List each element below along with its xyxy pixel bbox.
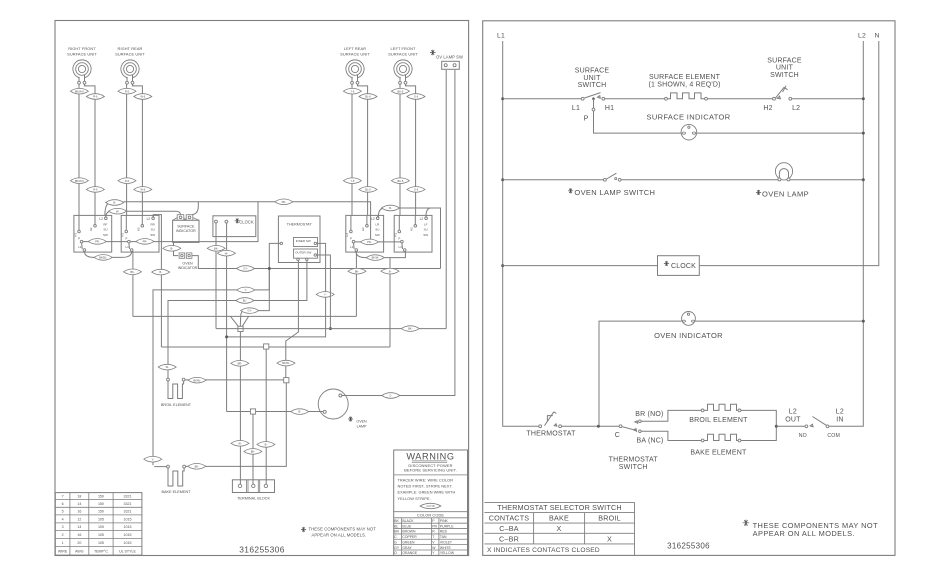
broil bus from box2-L2 to box4-L1: [161, 346, 390, 348]
svg-text:THERMOSTAT SELECTOR SWITCH: THERMOSTAT SELECTOR SWITCH: [497, 503, 621, 512]
svg-text:PR-: PR-: [143, 240, 148, 244]
svg-text:SW: SW: [375, 233, 380, 237]
svg-text:THERMOSTAT: THERMOSTAT: [609, 456, 659, 463]
svg-text:SURFACE: SURFACE: [575, 68, 610, 75]
svg-text:BL-6: BL-6: [365, 188, 371, 192]
svg-text:105: 105: [98, 525, 104, 529]
surface unit switch box LR SU SW: [345, 215, 383, 252]
note: these components may not appear (left panel): [301, 527, 376, 538]
svg-text:BK-: BK-: [214, 246, 218, 250]
surface unit switch box LF SU SW: [394, 215, 432, 252]
svg-text:N: N: [875, 33, 880, 40]
svg-text:BR-: BR-: [238, 361, 243, 365]
svg-text:16: 16: [77, 510, 81, 514]
svg-text:R-6: R-6: [93, 95, 98, 99]
svg-text:UNIT: UNIT: [776, 65, 794, 72]
splice bus: clock wire to oven lamp switch with BK- label: [216, 326, 446, 332]
broil element (schematic): [689, 404, 748, 424]
svg-text:150: 150: [98, 510, 104, 514]
svg-text:C–BR: C–BR: [499, 534, 519, 543]
svg-text:GY: GY: [394, 546, 400, 550]
svg-text:P: P: [125, 236, 127, 240]
svg-text:H1: H1: [394, 233, 398, 237]
junction branch join: [775, 425, 778, 428]
wire pair from surface unit 2 down to its switch: [118, 84, 152, 215]
svg-text:14: 14: [77, 525, 81, 529]
splice node B: [284, 378, 289, 383]
svg-text:B-: B-: [265, 443, 268, 447]
svg-text:CONTACTS: CONTACTS: [489, 514, 530, 523]
right panel border frame: [483, 21, 895, 556]
svg-text:P: P: [78, 236, 80, 240]
L1 vertical wire: [503, 41, 541, 426]
svg-text:PINK: PINK: [440, 519, 449, 523]
svg-text:P: P: [398, 236, 400, 240]
wire splice A down to terminal block with BR- and W- labels: [231, 332, 249, 485]
oven lamp: [756, 163, 809, 199]
svg-text:SWITCH: SWITCH: [619, 464, 648, 471]
svg-text:VIOLET: VIOLET: [440, 540, 452, 544]
svg-text:SU: SU: [424, 228, 428, 232]
svg-text:LAMP: LAMP: [357, 424, 367, 428]
feed into splice A from oven indicator line with GY- label: [240, 267, 270, 326]
wire BA contact to bake branch: [641, 431, 701, 440]
pilot wire box3-P to box4-P: [355, 239, 401, 245]
svg-text:5: 5: [62, 510, 64, 514]
oven lamp switch: [568, 173, 655, 197]
svg-text:SURFACE ELEMENT: SURFACE ELEMENT: [649, 74, 721, 81]
svg-text:316255306: 316255306: [239, 545, 285, 555]
svg-text:W-: W-: [116, 209, 119, 213]
svg-text:X: X: [557, 524, 562, 533]
svg-text:C–BA: C–BA: [499, 524, 519, 533]
junction L1 / surface line: [501, 97, 504, 100]
L1 jumper box1 to box2 with BK/BL- label: [84, 251, 131, 260]
svg-text:150: 150: [98, 502, 104, 506]
junction L2 / oven indicator line: [862, 320, 865, 323]
svg-text:SW: SW: [150, 233, 155, 237]
splice node C on lamp wire: [250, 409, 255, 414]
svg-text:BK-: BK-: [408, 327, 412, 331]
svg-text:H2: H2: [361, 227, 365, 231]
svg-text:OVEN: OVEN: [356, 419, 367, 423]
N vertical wire: [699, 41, 879, 266]
surface unit left rear (coil): [340, 46, 370, 84]
surface unit switch box RF SU SW: [73, 215, 111, 252]
svg-text:H2: H2: [89, 227, 93, 231]
svg-text:L1: L1: [399, 245, 403, 249]
thermostat (schematic): [526, 412, 576, 438]
svg-text:H2: H2: [137, 227, 141, 231]
svg-text:SURFACE: SURFACE: [177, 224, 195, 228]
svg-text:WARNING: WARNING: [406, 451, 454, 461]
svg-text:W-: W-: [225, 251, 228, 255]
svg-text:L1: L1: [78, 245, 82, 249]
svg-text:BA (NC): BA (NC): [636, 438, 663, 445]
svg-text:RF: RF: [103, 222, 107, 226]
svg-text:G/Y-B: G/Y-B: [427, 504, 435, 508]
svg-text:T: T: [432, 535, 434, 539]
svg-text:3321: 3321: [124, 510, 132, 514]
svg-text:SU: SU: [103, 228, 107, 232]
svg-text:W-6: W-6: [140, 188, 145, 192]
svg-text:H2: H2: [410, 227, 414, 231]
svg-text:SURFACE INDICATOR: SURFACE INDICATOR: [646, 112, 730, 121]
svg-text:W-6: W-6: [140, 95, 145, 99]
pilot wire box1-P to box2-P with PR- labels: [83, 239, 128, 245]
surface unit switch (right): [763, 57, 802, 112]
junction L2 / lamp line: [862, 178, 865, 181]
L1 bus across centre with funnel into splice A: [133, 316, 357, 326]
svg-text:BK/BL-: BK/BL-: [99, 256, 107, 260]
svg-text:1: 1: [62, 541, 64, 545]
svg-text:BR (NO): BR (NO): [635, 411, 663, 418]
svg-text:18: 18: [77, 495, 81, 499]
svg-text:SW: SW: [103, 233, 108, 237]
svg-text:BK-: BK-: [251, 450, 255, 454]
svg-text:SU: SU: [375, 228, 379, 232]
svg-text:20: 20: [77, 541, 81, 545]
junction L2 / surface line: [862, 97, 865, 100]
svg-text:PR-: PR-: [95, 240, 100, 244]
wire element to right switch: [707, 98, 772, 100]
svg-text:L1: L1: [572, 105, 580, 112]
junction L1 / lamp line: [501, 178, 504, 181]
wire L1 to oven lamp switch: [503, 179, 604, 181]
svg-text:316255306: 316255306: [667, 542, 710, 551]
svg-text:H1: H1: [345, 233, 349, 237]
svg-text:RED: RED: [440, 530, 448, 534]
svg-text:BL-: BL-: [243, 299, 247, 303]
svg-text:O: O: [394, 551, 397, 555]
svg-text:(1 SHOWN, 4 REQ'D): (1 SHOWN, 4 REQ'D): [648, 81, 720, 88]
svg-text:1015: 1015: [124, 533, 132, 537]
svg-text:B-: B-: [389, 206, 392, 210]
svg-text:OVEN LAMP: OVEN LAMP: [762, 189, 809, 198]
svg-text:H1: H1: [73, 233, 77, 237]
thermostat switch (C / BR / BA): [609, 411, 664, 471]
junction L1 / clock line: [501, 264, 504, 267]
wire switch to surface element: [605, 98, 665, 100]
svg-text:TEMP°C: TEMP°C: [94, 549, 108, 553]
svg-text:BLACK: BLACK: [402, 519, 414, 523]
svg-text:1015: 1015: [124, 541, 132, 545]
svg-text:OUT: OUT: [785, 416, 801, 423]
svg-text:Y-5: Y-5: [350, 89, 354, 93]
svg-text:OVEN LAMP SWITCH: OVEN LAMP SWITCH: [574, 188, 655, 197]
svg-text:LEFT REAR: LEFT REAR: [344, 46, 366, 51]
svg-text:BK-5: BK-5: [398, 179, 404, 183]
wire thermostat bottom 1 down to broil splice with BK/W- label: [277, 261, 298, 378]
svg-text:Y-: Y-: [152, 457, 154, 461]
wire box1-L2 up to surface indicator (left) with labels: [105, 200, 258, 217]
svg-text:GREEN: GREEN: [402, 540, 415, 544]
left panel border frame: [55, 21, 469, 556]
bake element: [161, 465, 191, 494]
bake element (schematic): [690, 434, 747, 456]
wire box3-L2 to box4-L2 with B- label, over to oven indicator drop: [378, 205, 440, 268]
wire splice C down to terminal block with BK- label: [244, 414, 262, 484]
svg-text:105: 105: [98, 533, 104, 537]
surface indicator box: [173, 202, 199, 243]
color code table: [394, 518, 468, 556]
thermostat box: [278, 216, 320, 263]
svg-text:L2: L2: [792, 105, 800, 112]
pilot wire box2-P over thermostat to box3/box4 P: [130, 199, 370, 244]
svg-text:O-6: O-6: [414, 95, 419, 99]
svg-text:B-: B-: [159, 270, 162, 274]
surface unit switch box RR SU SW: [121, 215, 159, 252]
svg-text:SWITCH: SWITCH: [578, 82, 607, 89]
svg-text:RIGHT REAR: RIGHT REAR: [118, 46, 143, 51]
svg-text:3321: 3321: [124, 502, 132, 506]
svg-text:BK/W-: BK/W-: [282, 361, 290, 365]
svg-text:SURFACE UNIT: SURFACE UNIT: [388, 52, 418, 57]
svg-text:BEFORE SERVICING UNIT.: BEFORE SERVICING UNIT.: [404, 468, 457, 473]
oven lamp switch left wire down: [445, 70, 447, 329]
svg-text:CLOCK: CLOCK: [671, 263, 696, 270]
svg-text:BAKE: BAKE: [549, 514, 569, 523]
svg-text:BK-5: BK-5: [398, 89, 404, 93]
wire box3-L1 down to L1 bus with BK- label: [348, 251, 366, 316]
wire BR contact to broil branch: [641, 410, 701, 421]
svg-text:105: 105: [98, 517, 104, 521]
oven indicator lamp: [654, 312, 723, 340]
L1 jumper box3 to box4 with BK/W- label: [356, 251, 406, 260]
wire pair from surface unit 3 down to its switch: [343, 84, 377, 215]
wire surface indicator down to oven indicator with B- label: [163, 242, 181, 255]
terminal block: [232, 480, 274, 501]
wire L1 to clock: [503, 265, 658, 267]
svg-text:SURFACE: SURFACE: [767, 57, 802, 64]
svg-text:W-: W-: [238, 441, 241, 445]
svg-text:R-6: R-6: [93, 188, 98, 192]
svg-text:B-: B-: [113, 201, 116, 205]
wire splice B down to bake right: [186, 383, 287, 469]
svg-text:TRACER WIRE: WIRE COLOR: TRACER WIRE: WIRE COLOR: [398, 477, 454, 482]
wire oven lamp right to lamp switch with C- label: [342, 70, 455, 398]
wire bake element to right branch join: [741, 426, 776, 440]
svg-text:COPPER: COPPER: [402, 535, 417, 539]
svg-text:L2: L2: [371, 217, 375, 221]
wire splice D down to terminal block with B- label: [257, 349, 275, 484]
svg-text:R-5: R-5: [125, 179, 130, 183]
wire thermostat to junction: [562, 425, 620, 427]
svg-text:SURFACE UNIT: SURFACE UNIT: [67, 52, 97, 57]
wire bake left up to thermostat bus: [154, 466, 166, 468]
svg-text:OVEN INDICATOR: OVEN INDICATOR: [654, 331, 723, 340]
wire gauge table: [55, 493, 142, 555]
surface unit right front (coil): [67, 46, 97, 84]
svg-text:L2: L2: [420, 217, 424, 221]
wire broil right to splice B with BK/W- label: [185, 377, 284, 383]
svg-text:SWITCH: SWITCH: [770, 72, 799, 79]
svg-text:L1: L1: [126, 245, 130, 249]
svg-text:G: G: [394, 540, 397, 544]
wire thermostat inner sw right, down and left: [225, 243, 334, 338]
svg-text:BLUE: BLUE: [402, 524, 412, 528]
svg-text:6: 6: [62, 502, 64, 506]
svg-text:L1: L1: [497, 33, 505, 40]
svg-text:1015: 1015: [124, 517, 132, 521]
svg-text:PR: PR: [432, 524, 437, 528]
svg-text:COLOR CODE: COLOR CODE: [417, 512, 444, 517]
svg-text:L2: L2: [789, 408, 797, 415]
wire thermostat bottom 2 down to broil wire (BL): [158, 261, 307, 379]
svg-text:AWG: AWG: [75, 549, 84, 553]
svg-text:2: 2: [62, 533, 64, 537]
svg-text:LF: LF: [424, 222, 428, 226]
svg-text:H2: H2: [763, 105, 772, 112]
oven lamp switch box (pictorial): [430, 50, 463, 70]
svg-text:L2: L2: [858, 33, 866, 40]
svg-text:SU: SU: [151, 228, 155, 232]
svg-text:PR-: PR-: [367, 240, 372, 244]
svg-text:SURFACE UNIT: SURFACE UNIT: [340, 52, 370, 57]
surface unit right rear (coil): [115, 46, 145, 84]
svg-text:B-: B-: [171, 246, 174, 250]
svg-text:X: X: [607, 534, 612, 543]
svg-text:BK/W-: BK/W-: [193, 378, 201, 382]
svg-text:YELLOW: YELLOW: [440, 551, 455, 555]
svg-text:SW: SW: [423, 233, 428, 237]
oven indicator terminals: [178, 253, 198, 270]
svg-text:P: P: [584, 115, 589, 122]
svg-text:W-: W-: [166, 365, 169, 369]
svg-text:THERMOSTAT: THERMOSTAT: [526, 431, 576, 438]
svg-text:OUTER SW: OUTER SW: [295, 250, 311, 254]
warning box: [394, 450, 468, 555]
svg-text:GY-: GY-: [248, 309, 253, 313]
svg-text:OV LAMP SW: OV LAMP SW: [436, 55, 463, 60]
svg-text:H1: H1: [121, 233, 125, 237]
wire box2-L2 down to broil bus: [152, 215, 170, 347]
svg-text:BROIL ELEMENT: BROIL ELEMENT: [161, 403, 192, 407]
svg-text:BROWN: BROWN: [402, 530, 416, 534]
svg-text:TERMINAL BLOCK: TERMINAL BLOCK: [237, 497, 270, 501]
svg-text:3: 3: [62, 525, 64, 529]
svg-text:YELLOW STRIPE.: YELLOW STRIPE.: [398, 496, 431, 501]
svg-text:WIRE: WIRE: [58, 549, 68, 553]
svg-text:APPEAR ON ALL MODELS.: APPEAR ON ALL MODELS.: [312, 532, 367, 537]
svg-text:BK/W-: BK/W-: [372, 256, 380, 260]
svg-text:OVEN: OVEN: [182, 261, 193, 265]
svg-text:BROIL: BROIL: [598, 514, 621, 523]
svg-text:105: 105: [98, 541, 104, 545]
wire pair from surface unit 1 down to its switch: [70, 84, 104, 215]
svg-text:GRAY: GRAY: [402, 546, 412, 550]
svg-text:COM: COM: [827, 433, 840, 439]
svg-text:IN: IN: [836, 416, 843, 423]
svg-text:BL-6: BL-6: [365, 95, 371, 99]
L2 vertical wire: [829, 41, 863, 426]
svg-text:BK-: BK-: [355, 269, 359, 273]
svg-text:BK/W-5: BK/W-5: [75, 179, 84, 183]
oven door / L2 switch (NO-COM): [785, 408, 844, 439]
svg-text:1015: 1015: [124, 525, 132, 529]
svg-text:BL: BL: [394, 524, 398, 528]
svg-text:UNIT: UNIT: [583, 75, 601, 82]
clock box: [658, 256, 700, 276]
svg-text:4: 4: [62, 517, 64, 521]
svg-text:R-5: R-5: [125, 89, 130, 93]
wire thermostat outer sw right, down to splice bus: [317, 255, 332, 330]
svg-text:C: C: [615, 432, 620, 439]
svg-text:NOTED FIRST, STRIPE NEXT.: NOTED FIRST, STRIPE NEXT.: [398, 484, 453, 489]
svg-text:Y-5: Y-5: [350, 179, 354, 183]
svg-text:H1: H1: [605, 105, 614, 112]
svg-text:B-: B-: [298, 410, 301, 414]
wire oven lamp to L2: [790, 179, 863, 181]
svg-text:O-6: O-6: [414, 188, 419, 192]
surface indicator lamp: [646, 112, 730, 140]
svg-text:BK-: BK-: [195, 464, 199, 468]
svg-text:ORANGE: ORANGE: [402, 551, 417, 555]
svg-text:BAKE ELEMENT: BAKE ELEMENT: [690, 449, 747, 456]
svg-text:PURPLE: PURPLE: [440, 524, 454, 528]
junction L2 / indicator line: [862, 132, 865, 135]
clock wire 1 down to splice bus with BK- label: [207, 223, 225, 329]
svg-text:16: 16: [77, 533, 81, 537]
svg-text:INNER SW: INNER SW: [296, 239, 311, 243]
note: these components may not appear (right panel): [743, 520, 878, 538]
svg-text:WHITE: WHITE: [440, 546, 452, 550]
surface unit switch (left): [572, 68, 614, 123]
svg-text:BR: BR: [394, 530, 399, 534]
svg-text:LEFT FRONT: LEFT FRONT: [391, 46, 416, 51]
svg-text:EXAMPLE: GREEN WIRE WITH: EXAMPLE: GREEN WIRE WITH: [398, 490, 456, 495]
svg-text:L1: L1: [350, 245, 354, 249]
wire oven indicator to L2: [695, 320, 863, 322]
svg-text:150: 150: [98, 495, 104, 499]
wire box2-L1 down to L1 bus with BK- label: [124, 251, 142, 316]
surface element (heating element symbol): [648, 74, 720, 100]
thermostat selector switch table: [484, 502, 634, 555]
oven lamp line from clock wire 2 to lamp with B- label: [227, 409, 324, 415]
svg-text:L2: L2: [836, 408, 844, 415]
svg-text:GY-: GY-: [243, 267, 248, 271]
wire oven indicator right, across with GY- label: [192, 256, 441, 272]
svg-text:L2: L2: [99, 217, 103, 221]
svg-text:C-: C-: [389, 394, 392, 398]
surface unit left front (coil): [388, 46, 418, 84]
wire P down to surface indicator line: [594, 111, 682, 133]
svg-text:INDICATOR: INDICATOR: [178, 266, 198, 270]
svg-text:L2: L2: [147, 217, 151, 221]
svg-text:APPEAR ON ALL MODELS.: APPEAR ON ALL MODELS.: [753, 529, 855, 538]
wire box4-L1 down to broil bus with B- label: [381, 258, 399, 347]
svg-text:X INDICATES CONTACTS CLOSED: X INDICATES CONTACTS CLOSED: [487, 547, 600, 554]
wire down-left from thermostat line up to oven indicator: [599, 321, 682, 426]
splice node D on broil bus: [264, 344, 269, 349]
svg-text:3321: 3321: [124, 495, 132, 499]
svg-text:7: 7: [62, 495, 64, 499]
oven lamp: [318, 389, 367, 428]
svg-text:12: 12: [77, 517, 81, 521]
svg-text:CLOCK: CLOCK: [239, 219, 254, 224]
svg-text:INDICATOR: INDICATOR: [176, 229, 196, 233]
svg-text:Y-: Y-: [245, 288, 247, 292]
clock box (pictorial): [213, 216, 256, 237]
svg-text:BROIL ELEMENT: BROIL ELEMENT: [689, 417, 748, 424]
wire right switch to L2: [792, 98, 864, 100]
clock wire 2 down to oven lamp line with W- label: [217, 223, 235, 412]
splice node A (wire nut): [238, 326, 243, 331]
svg-text:14: 14: [77, 502, 81, 506]
wire L1 to surface unit switch: [503, 98, 582, 100]
svg-text:UL STYLE: UL STYLE: [119, 549, 136, 553]
svg-text:BK-: BK-: [130, 270, 134, 274]
